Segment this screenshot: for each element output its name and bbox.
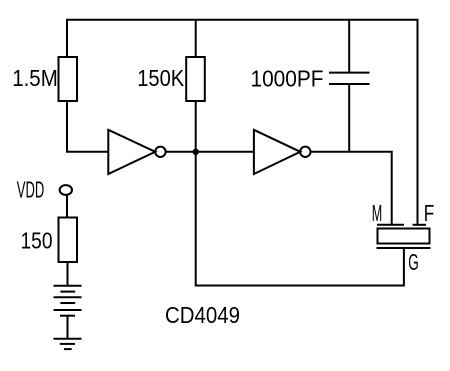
svg-text:150K: 150K — [137, 65, 185, 91]
svg-text:F: F — [424, 200, 435, 226]
svg-text:VDD: VDD — [17, 177, 44, 203]
svg-text:G: G — [408, 249, 419, 275]
svg-text:CD4049: CD4049 — [165, 302, 240, 328]
svg-text:1.5M: 1.5M — [12, 65, 58, 91]
svg-text:M: M — [372, 200, 383, 226]
svg-text:1000PF: 1000PF — [251, 66, 324, 92]
svg-text:150: 150 — [21, 228, 53, 254]
